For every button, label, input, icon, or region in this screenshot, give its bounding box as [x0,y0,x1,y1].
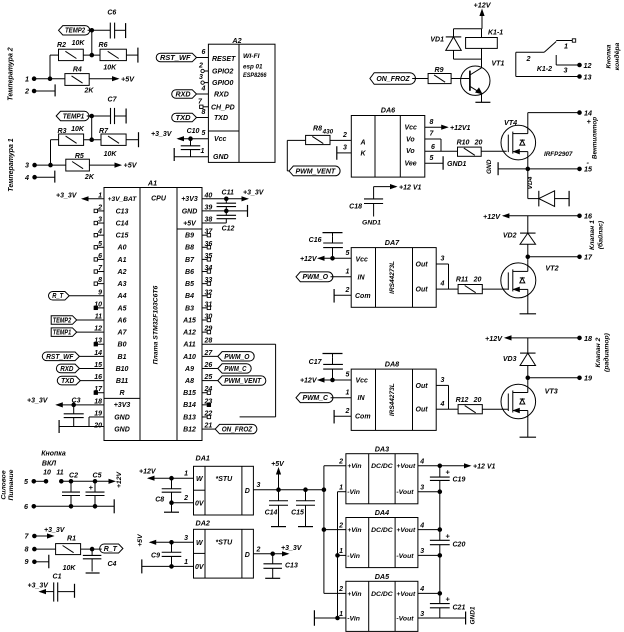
svg-text:Out: Out [416,383,429,390]
svg-text:IRS44273L: IRS44273L [389,383,396,416]
flag R_T dest [48,291,104,300]
svg-text:GND: GND [114,414,130,421]
VT2 source gnd [520,298,537,314]
svg-text:IN: IN [358,274,366,281]
svg-text:Out: Out [416,407,429,414]
wire relay bottom [454,59,482,67]
svg-text:4: 4 [440,401,445,408]
svg-text:6: 6 [202,49,206,56]
svg-text:DC/DC: DC/DC [371,463,393,470]
svg-text:B6: B6 [185,269,194,276]
svg-text:2: 2 [338,522,343,529]
svg-text:DC/DC: DC/DC [371,527,393,534]
DA6 pins7-6 bridge [425,131,441,152]
svg-text:19: 19 [94,410,102,417]
svg-text:+3_3V: +3_3V [44,527,66,534]
svg-text:2K: 2K [84,174,95,181]
svg-text:17: 17 [584,253,593,262]
svg-text:A3: A3 [117,281,127,288]
svg-text:2: 2 [338,586,343,593]
svg-text:R1: R1 [67,535,76,542]
flag PWM_O src [202,352,254,361]
svg-text:RXD: RXD [60,366,73,373]
svg-text:11: 11 [56,469,63,476]
svg-text:GPIO2: GPIO2 [212,69,234,76]
svg-text:5: 5 [98,241,102,248]
DA8 pin names [355,378,428,421]
A1 right pin names [181,196,198,433]
svg-text:10K: 10K [103,64,117,71]
svg-text:TXD: TXD [61,378,74,385]
wire R1 to R_T [81,547,102,551]
resistor R1 [56,535,81,572]
DA3 +12V1 out [438,464,495,471]
pin 6 [24,499,114,513]
svg-text:19: 19 [584,374,592,383]
transistor VT2 [501,257,559,298]
svg-text:PWM_C: PWM_C [303,395,329,402]
A2 right texts [243,53,267,79]
capacitor C17 [309,354,343,381]
side label Температура 2 [8,47,15,100]
pin 2 [24,84,55,96]
svg-text:B4: B4 [185,293,194,300]
resistor R3 [58,126,85,145]
svg-text:5: 5 [346,250,350,257]
svg-text:+5V: +5V [124,161,138,170]
svg-text:25: 25 [204,374,213,381]
resistor R2 [57,40,85,60]
diode VD4 [527,169,569,207]
svg-text:PWM_VENT: PWM_VENT [224,378,261,385]
resistor R6 [99,42,127,71]
wire node to R2 row [90,30,94,57]
svg-text:26: 26 [204,362,213,369]
svg-text:+12V: +12V [139,468,157,475]
svg-text:B7: B7 [185,257,195,264]
resistor R7 [99,128,126,158]
resistor R5 [66,153,95,181]
svg-text:3: 3 [564,66,568,75]
+12V top [474,1,492,29]
svg-text:C8: C8 [155,497,164,504]
svg-text:RXD: RXD [176,91,191,98]
svg-text:0V: 0V [195,564,205,571]
svg-text:DC/DC: DC/DC [371,591,393,598]
svg-text:+Vin: +Vin [347,527,361,534]
svg-text:430: 430 [322,128,334,135]
flag PWM_VENT src [202,376,266,385]
IC DA8 box [351,360,436,431]
svg-text:1: 1 [184,559,188,566]
svg-text:Клапан 1: Клапан 1 [589,220,596,250]
svg-text:D: D [245,488,250,495]
A1 pin28 wire [202,344,276,417]
DA7 Com bar [334,287,351,303]
svg-text:(байпас): (байпас) [597,220,605,249]
flag R_T [100,544,123,553]
DA8 out bridge [436,377,458,409]
side label Кнопка кондёра [606,42,621,70]
svg-text:20: 20 [473,276,482,283]
svg-text:-Vout: -Vout [396,615,414,622]
svg-text:VD3: VD3 [503,356,517,363]
capacitor C5 [86,472,105,506]
svg-text:A6: A6 [117,317,127,324]
svg-text:2: 2 [526,54,531,63]
svg-text:+3_3V: +3_3V [27,398,49,405]
svg-text:Силовое: Силовое [1,470,8,499]
A1 pin18 +3_3V [27,398,104,407]
IC DA2 box [194,519,254,579]
svg-text:C18: C18 [349,204,362,211]
svg-text:+Vin: +Vin [347,463,361,470]
contact K1-2 pin1 [556,39,576,51]
IC A1 box [104,179,202,441]
svg-text:Out: Out [416,287,429,294]
+Vin bus [322,466,326,594]
button labels [41,451,66,477]
A1 pin39 gnd bar [202,205,248,217]
svg-text:C12: C12 [222,226,235,233]
svg-text:1: 1 [184,471,188,478]
svg-text:1: 1 [339,485,343,492]
pin 3 [25,161,66,170]
resistor R8 [306,126,334,145]
svg-text:A7: A7 [117,330,128,337]
svg-text:2: 2 [256,546,261,553]
svg-text:B11: B11 [116,378,128,385]
svg-text:3: 3 [257,482,261,489]
A1 pin38 wire [202,222,226,224]
DA7 pin names [355,257,428,300]
capacitor C7 [108,97,127,125]
svg-text:B5: B5 [185,281,194,288]
svg-text:16: 16 [94,374,102,381]
diode VD1 [430,29,461,59]
transistor VT4 [501,118,573,160]
svg-text:39: 39 [205,204,213,211]
A1 vertical part name [153,285,160,364]
svg-text:4: 4 [419,522,424,529]
flag TEMP1 dest [51,328,104,337]
svg-text:RST_WF: RST_WF [160,55,191,62]
svg-text:GND: GND [486,159,493,174]
svg-text:Vcc: Vcc [214,136,227,143]
capacitor C18 [349,184,421,226]
svg-text:PWM_O: PWM_O [303,274,329,281]
svg-text:GND1: GND1 [470,606,477,624]
flag TXD [172,109,209,122]
svg-text:ON_FROZ: ON_FROZ [376,76,410,83]
svg-text:TEMP2: TEMP2 [65,28,85,35]
svg-text:GND: GND [213,154,229,161]
svg-text:B12: B12 [183,426,196,433]
svg-text:A5: A5 [117,305,127,312]
capacitor C16 [309,233,343,259]
svg-text:+: + [89,483,94,492]
flag TXD dest [57,376,104,385]
wire node to R3 row [90,116,94,142]
flag RST_WF [156,49,208,62]
svg-text:B14: B14 [183,402,196,409]
svg-text:+Vin: +Vin [347,591,361,598]
svg-text:Vee: Vee [405,161,417,168]
DA6 pin8 +12V1 [425,119,471,132]
svg-text:DA2: DA2 [196,519,210,528]
svg-text:R4: R4 [73,67,82,74]
svg-text:2: 2 [342,132,347,139]
IC DA1 box [194,454,254,515]
svg-text:TEMP1: TEMP1 [53,330,72,337]
contact K1-2 pin2 [516,52,544,63]
svg-text:A9: A9 [184,366,194,373]
pin 5 [24,477,48,486]
svg-text:38: 38 [205,217,213,224]
wire R2-R6 [83,54,100,56]
flag TEMP2 [59,26,90,35]
svg-text:Температура 1: Температура 1 [8,138,15,191]
capacitor C10 [181,128,201,157]
DA1 texts [195,476,250,507]
svg-text:Плата STM32F103C6Т6: Плата STM32F103C6Т6 [153,285,160,364]
svg-text:+: + [445,532,450,541]
+12V rail kl1 [483,212,593,221]
wire R9 to base [451,78,470,80]
capacitor C3 [64,397,84,426]
svg-text:A1: A1 [117,257,127,264]
svg-text:PWM_VENT: PWM_VENT [296,168,336,175]
svg-text:B9: B9 [185,233,194,240]
DA1 +12V in [139,468,194,480]
svg-text:C15: C15 [291,510,304,517]
svg-text:DA3: DA3 [375,444,389,453]
svg-text:10K: 10K [63,565,77,572]
svg-text:*STU: *STU [216,540,234,547]
IC DA6 box [351,106,425,178]
svg-text:C17: C17 [309,359,323,366]
svg-text:+3V3: +3V3 [114,402,131,409]
svg-text:16: 16 [584,212,593,221]
A1 left nc pins [94,209,104,394]
svg-text:1: 1 [339,548,343,555]
svg-text:DA5: DA5 [375,572,390,581]
capacitor C6 [107,10,125,39]
wire R6 end bar [126,48,137,63]
svg-text:R: R [119,390,124,397]
svg-text:Vcc: Vcc [356,257,369,264]
svg-text:4: 4 [24,173,29,182]
pin 1 [25,74,65,83]
svg-text:+3_3V: +3_3V [281,545,303,552]
svg-text:R10: R10 [457,139,470,146]
contact K1-2 pin3 [537,55,592,75]
GND1 bar out [440,606,477,624]
resistor R11 [456,276,508,293]
DA7 out bridge [436,256,458,290]
svg-text:RST_WF: RST_WF [46,354,74,361]
DA8 +12V in [300,372,351,385]
svg-text:R6: R6 [99,42,108,49]
svg-text:CPU: CPU [151,196,167,203]
flag PWM_O [296,268,351,281]
svg-text:GND: GND [182,208,198,215]
svg-text:2: 2 [183,495,188,502]
svg-text:18: 18 [584,334,592,343]
svg-text:9: 9 [98,289,102,296]
svg-text:20: 20 [473,397,482,404]
node 19 [526,374,592,383]
svg-text:C7: C7 [108,97,118,104]
svg-text:A2: A2 [117,269,127,276]
capacitor C14 [265,490,288,527]
svg-text:A11: A11 [182,342,195,349]
svg-text:C5: C5 [93,472,102,479]
A1 left pin numbers [93,192,103,429]
svg-text:+12V: +12V [300,378,318,385]
svg-text:3: 3 [420,485,424,492]
pin GPIO0 nc [199,74,208,84]
flag PWM_VENT src2 [287,140,340,175]
svg-text:+Vout: +Vout [396,527,416,534]
svg-text:2: 2 [338,459,343,466]
svg-text:+Vout: +Vout [396,591,416,598]
capacitor C8 [155,478,193,512]
svg-text:21: 21 [204,423,213,430]
svg-text:C15: C15 [116,233,129,240]
flag PWM_C src [202,364,251,373]
DA7 part number [389,261,396,294]
+12V rail kl2 [485,334,592,343]
svg-text:Com: Com [355,414,371,421]
capacitor C13 [263,554,297,579]
flag ON_FROZ src [202,424,257,433]
svg-text:2K: 2K [84,88,95,95]
svg-text:12: 12 [94,326,102,333]
IC DA4 [324,508,440,568]
wire left drop [48,55,58,80]
flag ON_FROZ [370,73,428,85]
svg-text:TEMP1: TEMP1 [63,113,85,120]
wire pin6 to R10 [441,150,458,152]
svg-text:10: 10 [43,469,51,476]
svg-text:C14: C14 [116,220,129,227]
svg-text:10K: 10K [104,151,118,158]
svg-text:-Vin: -Vin [347,615,360,622]
svg-text:3: 3 [343,145,347,152]
wire R10 to VT4 gate [481,150,507,152]
pin CH_PD nc [198,98,208,108]
svg-text:4: 4 [440,281,445,288]
wire R4 to +5V [89,74,135,83]
svg-text:GND1: GND1 [362,220,381,227]
svg-text:10K: 10K [71,126,85,133]
VT4 drain wire to 14 [528,109,592,127]
A1 right pin numbers [204,192,214,429]
side label Силовое Питание [1,469,16,500]
svg-text:18: 18 [94,398,102,405]
resistor R9 [428,67,451,84]
svg-text:D: D [245,552,250,559]
svg-text:VT1: VT1 [492,61,505,68]
svg-text:-Vout: -Vout [396,489,414,496]
wire R7 end bar [126,132,138,147]
svg-text:IRS44273L: IRS44273L [389,261,396,294]
capacitor C12 [217,209,237,232]
svg-text:+12 V1: +12 V1 [473,464,495,471]
svg-text:10K: 10K [72,40,86,47]
svg-text:C11: C11 [222,190,234,197]
flag PWM_C [296,389,351,402]
node 17 [526,253,593,262]
svg-text:VD2: VD2 [503,233,517,240]
svg-text:B15: B15 [183,390,196,397]
svg-text:3: 3 [184,535,188,542]
button contact [60,480,115,484]
svg-text:Vcc: Vcc [405,125,418,132]
svg-text:3: 3 [98,217,102,224]
IC A2 box [208,36,275,162]
capacitor C4 [83,549,117,573]
svg-text:R2: R2 [57,42,66,49]
wire left drop2 [49,140,59,167]
svg-text:2: 2 [198,63,203,70]
svg-text:3: 3 [441,256,445,263]
svg-text:13: 13 [584,72,592,81]
svg-text:VT3: VT3 [545,387,558,396]
capacitor C20 [430,530,466,558]
svg-text:27: 27 [204,350,214,357]
svg-text:ON_FROZ: ON_FROZ [222,426,253,433]
svg-text:2: 2 [345,287,350,294]
svg-text:C2: C2 [69,472,78,479]
DA8 part number [389,383,396,416]
VT4 gnd bar [486,159,498,175]
svg-text:+12 V1: +12 V1 [399,184,421,191]
svg-text:5: 5 [346,372,350,379]
svg-text:5: 5 [430,155,434,162]
svg-text:A15: A15 [182,317,196,324]
svg-text:DA7: DA7 [385,238,400,247]
svg-text:C16: C16 [309,237,322,244]
svg-text:B13: B13 [183,414,196,421]
svg-text:IN: IN [358,395,366,402]
DA8 Com bar [334,408,351,424]
svg-text:Вентилятор: Вентилятор [592,117,599,159]
svg-text:0V: 0V [195,500,205,507]
svg-text:C14: C14 [265,510,278,517]
A1 pins 19 20 gnd [59,417,104,433]
side label Клапан 2 [595,332,611,372]
svg-text:A4: A4 [117,293,127,300]
side label Вентилятор [592,117,599,159]
svg-text:B0: B0 [118,342,127,349]
svg-text:K1-2: K1-2 [537,66,552,73]
svg-text:RXD: RXD [214,92,229,99]
svg-text:+12V: +12V [483,212,501,221]
capacitor C2 [62,472,80,506]
svg-text:R_T: R_T [52,293,63,300]
IC DA3 [324,444,440,504]
svg-text:3: 3 [199,74,203,81]
svg-text:+5V: +5V [137,533,144,547]
svg-text:1: 1 [201,148,205,155]
svg-text:+3V3: +3V3 [181,196,198,203]
svg-text:+12V1: +12V1 [450,125,471,132]
svg-text:+3_3V: +3_3V [56,193,78,200]
svg-text:Кнопка: Кнопка [41,451,66,458]
capacitor C15 [291,490,315,527]
